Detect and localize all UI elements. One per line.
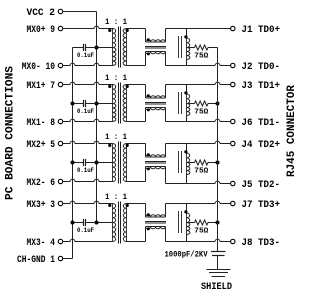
wire chassis ground vertical rail (0.1uF commons) (72, 48, 74, 259)
wire T4 secondary bottom to choke L4 (127, 241, 146, 243)
resistor R1 75 ohm (195, 45, 209, 50)
wire AT2 tap to resistor R2 (187, 103, 195, 105)
common-mode choke L4 core (145, 221, 166, 223)
wire AT1 tap to resistor R1 (187, 47, 195, 49)
junction VCC rail / T2 center tap (95, 102, 99, 106)
transformer T2 secondary winding (123, 85, 126, 122)
capacitor C1 0.1uF plates (83, 44, 85, 51)
wire 0.1uF C2 right lead (86, 103, 97, 105)
transformer T4 core (118, 202, 120, 244)
transformer T1 primary winding (113, 29, 116, 48)
pin MX0- terminal (58, 63, 62, 67)
svg-text:0.1uF: 0.1uF (77, 227, 94, 234)
wire choke L2 to pin J3 (165, 85, 167, 99)
wire choke L3 to pin J5 (165, 167, 167, 184)
autotransformer AT3 winding (187, 153, 190, 163)
wire choke L1 to pin J1 (165, 29, 167, 43)
common-mode choke L1 top winding (146, 40, 166, 42)
capacitor C2 0.1uF plates (83, 100, 85, 107)
wire 0.1uF C1 right lead (86, 47, 97, 49)
transformer T1 secondary winding (123, 29, 126, 66)
polarity dot choke L2 bottom (147, 108, 150, 111)
junction ground rail / C4 left plate (71, 221, 75, 225)
pin J7 terminal (231, 201, 235, 205)
wire T3 secondary bottom to choke L3 (127, 181, 146, 183)
svg-text:MX0+ 9: MX0+ 9 (27, 25, 56, 36)
wire T4 primary center tap to VCC rail (97, 222, 113, 224)
polarity dot T2 secondary (126, 85, 129, 88)
wire 0.1uF C3 right lead (86, 162, 97, 164)
svg-text:MX1+ 7: MX1+ 7 (27, 81, 56, 92)
wire VCC vertical rail (primary center taps) (96, 12, 98, 223)
svg-text:J2 TD0-: J2 TD0- (242, 62, 281, 73)
transformer T1 core (118, 27, 120, 68)
wire AT1 top lead (186, 29, 188, 39)
pin VCC 2 terminal (58, 9, 62, 13)
pin J8 terminal (231, 239, 235, 243)
wire AT4 bottom lead (186, 235, 188, 242)
wire T2 secondary top to choke L2 (127, 84, 146, 86)
pin CH-GND 1 terminal (58, 256, 62, 260)
wire AT1 bottom lead (186, 60, 188, 66)
svg-text:75Ω: 75Ω (194, 228, 209, 236)
transformer T2 core (118, 83, 120, 124)
svg-text:SHIELD: SHIELD (201, 281, 232, 292)
wire 0.1uF C1 left lead (73, 47, 84, 49)
junction VCC rail / T4 center tap (95, 221, 99, 225)
common-mode choke L1 bottom winding (146, 52, 166, 54)
wire MX1+ to transformer T2 primary top (63, 84, 70, 86)
wire AT4 top lead (186, 204, 188, 214)
junction ground rail / C3 left plate (71, 161, 75, 165)
common-mode choke L4 top winding (146, 215, 166, 217)
wire resistor R3 to termination rail (208, 162, 218, 164)
polarity dot choke L3 top (147, 153, 150, 156)
junction VCC rail / T1 center tap (95, 46, 99, 50)
wire 0.1uF C4 left lead (73, 222, 84, 224)
svg-text:MX3+ 3: MX3+ 3 (27, 200, 56, 211)
wire choke L1 to pin J2 (165, 52, 167, 66)
common-mode choke L3 core (145, 161, 166, 163)
svg-text:J4 TD2+: J4 TD2+ (242, 140, 281, 151)
wire MX0- to transformer T1 primary bottom (63, 65, 70, 67)
wire T3 secondary top to choke L3 (127, 143, 146, 145)
svg-text:J3 TD1+: J3 TD1+ (242, 81, 281, 92)
autotransformer AT4 winding (187, 213, 190, 223)
pin J4 terminal (231, 141, 235, 145)
svg-text:1 : 1: 1 : 1 (105, 132, 127, 142)
svg-text:0.1uF: 0.1uF (77, 167, 94, 174)
common-mode choke L2 core (145, 102, 166, 104)
svg-text:1 : 1: 1 : 1 (105, 17, 127, 27)
polarity dot AT4 (184, 210, 187, 213)
svg-text:J5 TD2-: J5 TD2- (242, 180, 281, 191)
wire VCC pin 2 to center-tap rail (63, 11, 97, 13)
svg-text:J8 TD3-: J8 TD3- (242, 238, 281, 249)
wire choke L2 to pin J6 (165, 108, 167, 122)
wire MX0+ to transformer T1 primary top (63, 28, 94, 30)
wire T1 secondary bottom to choke L1 (127, 65, 146, 67)
pin J3 terminal (231, 82, 235, 86)
wire choke L4 to pin J8 (165, 227, 167, 242)
capacitor C4 0.1uF plates (83, 219, 85, 226)
pin MX3- terminal (58, 239, 62, 243)
pin J6 terminal (231, 119, 235, 123)
svg-text:MX0- 10: MX0- 10 (22, 62, 55, 73)
polarity dot T2 primary (108, 85, 111, 88)
polarity dot T3 secondary (126, 144, 129, 147)
svg-text:J6 TD1-: J6 TD1- (242, 118, 281, 129)
svg-text:MX2+ 5: MX2+ 5 (27, 140, 56, 151)
polarity dot choke L1 bottom (147, 52, 150, 55)
wire MX1- to transformer T2 primary bottom (63, 121, 70, 123)
junction termination rail / R2 (216, 102, 220, 106)
pin J1 terminal (231, 26, 235, 30)
svg-text:RJ45 CONNECTOR: RJ45 CONNECTOR (286, 85, 298, 177)
autotransformer AT4 core (178, 211, 180, 233)
capacitor C5 1000pF/2KV plates (211, 251, 226, 253)
wire MX3- to transformer T4 primary bottom (63, 241, 70, 243)
wire resistor R4 to termination rail (208, 222, 218, 224)
svg-text:1000pF/2KV: 1000pF/2KV (165, 250, 208, 259)
polarity dot T4 primary (108, 204, 111, 207)
pin MX2+ terminal (58, 141, 62, 145)
svg-text:J1 TD0+: J1 TD0+ (242, 25, 281, 36)
common-mode choke L3 top winding (146, 155, 166, 157)
wire 0.1uF C2 left lead (73, 103, 84, 105)
polarity dot AT2 (184, 91, 187, 94)
polarity dot T3 primary (108, 144, 111, 147)
wire choke L3 to pin J4 (165, 144, 167, 158)
pin MX3+ terminal (58, 201, 62, 205)
svg-text:MX1- 8: MX1- 8 (27, 118, 56, 129)
svg-text:75Ω: 75Ω (194, 53, 209, 61)
junction VCC rail / T3 center tap (95, 161, 99, 165)
svg-text:J7 TD3+: J7 TD3+ (242, 200, 281, 211)
junction ground rail / C2 left plate (71, 102, 75, 106)
wire AT2 top lead (186, 85, 188, 95)
polarity dot T1 primary (108, 29, 111, 32)
svg-text:MX2- 6: MX2- 6 (27, 178, 56, 189)
polarity dot T4 secondary (126, 204, 129, 207)
wire T4 secondary top to choke L4 (127, 203, 146, 205)
autotransformer AT1 core (178, 36, 180, 58)
svg-text:MX3- 4: MX3- 4 (27, 238, 56, 249)
pin J5 terminal (231, 181, 235, 185)
resistor R3 75 ohm (195, 160, 209, 165)
polarity dot choke L4 top (147, 213, 150, 216)
common-mode choke L3 bottom winding (146, 167, 166, 169)
wire AT4 tap to resistor R4 (187, 222, 195, 224)
svg-text:CH-GND 1: CH-GND 1 (17, 255, 55, 266)
svg-text:1 : 1: 1 : 1 (105, 73, 127, 83)
ground symbol SHIELD (207, 269, 231, 271)
wire MX2- to transformer T3 primary bottom (63, 181, 70, 183)
svg-text:PC BOARD CONNECTIONS: PC BOARD CONNECTIONS (5, 66, 17, 200)
transformer T4 primary winding (113, 204, 116, 223)
wire resistor R1 to termination rail (208, 47, 218, 49)
polarity dot choke L1 top (147, 38, 150, 41)
svg-text:75Ω: 75Ω (194, 168, 209, 176)
wire C5 to shield ground (217, 256, 219, 270)
junction termination rail / R4 (216, 221, 220, 225)
wire choke L4 to pin J7 (165, 204, 167, 218)
wire MX2+ to transformer T3 primary top (63, 143, 70, 145)
wire AT3 tap to resistor R3 (187, 162, 195, 164)
transformer T3 secondary winding (123, 144, 126, 182)
svg-text:0.1uF: 0.1uF (77, 52, 94, 59)
svg-text:1 : 1: 1 : 1 (105, 192, 127, 202)
pin MX0+ terminal (58, 26, 62, 30)
polarity dot choke L3 bottom (147, 167, 150, 170)
capacitor C3 0.1uF plates (83, 159, 85, 166)
transformer T2 primary winding (113, 85, 116, 104)
polarity dot T1 secondary (126, 29, 129, 32)
wire T1 secondary top to choke L1 (127, 28, 146, 30)
autotransformer AT2 core (178, 92, 180, 114)
wire AT3 top lead (186, 144, 188, 154)
polarity dot AT3 (184, 150, 187, 153)
common-mode choke L4 bottom winding (146, 227, 166, 229)
polarity dot AT1 (184, 35, 187, 38)
wire 0.1uF C3 left lead (73, 162, 84, 164)
wire CH-GND pin 1 to ground rail (63, 258, 73, 260)
common-mode choke L2 top winding (146, 96, 166, 98)
junction termination rail / R3 (216, 161, 220, 165)
wire AT3 bottom lead (186, 175, 188, 184)
wire resistor R2 to termination rail (208, 103, 218, 105)
polarity dot choke L2 top (147, 94, 150, 97)
transformer T3 primary winding (113, 144, 116, 163)
polarity dot choke L4 bottom (147, 227, 150, 230)
svg-text:VCC 2: VCC 2 (27, 8, 56, 19)
pin MX1+ terminal (58, 82, 62, 86)
wire 0.1uF C4 right lead (86, 222, 97, 224)
resistor R4 75 ohm (195, 220, 209, 225)
wire T3 primary center tap to VCC rail (97, 162, 113, 164)
autotransformer AT3 core (178, 151, 180, 173)
svg-text:75Ω: 75Ω (194, 109, 209, 117)
wire T1 primary center tap to VCC rail (97, 47, 113, 49)
svg-text:0.1uF: 0.1uF (77, 108, 94, 115)
autotransformer AT2 winding (187, 94, 190, 104)
wire AT2 bottom lead (186, 116, 188, 122)
resistor R2 75 ohm (195, 101, 209, 106)
pin MX1- terminal (58, 119, 62, 123)
wire T2 secondary bottom to choke L2 (127, 121, 146, 123)
transformer T3 core (118, 142, 120, 184)
wire T2 primary center tap to VCC rail (97, 103, 113, 105)
common-mode choke L1 core (145, 46, 166, 48)
pin J2 terminal (231, 63, 235, 67)
pin MX2- terminal (58, 179, 62, 183)
common-mode choke L2 bottom winding (146, 108, 166, 110)
autotransformer AT1 winding (187, 38, 190, 48)
transformer T4 secondary winding (123, 204, 126, 242)
wire termination rail vertical (217, 48, 219, 252)
wire MX3+ to transformer T4 primary top (63, 203, 70, 205)
